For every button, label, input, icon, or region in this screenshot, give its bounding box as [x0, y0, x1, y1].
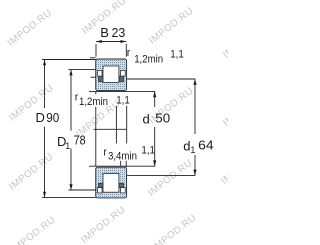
svg-text:1,2min: 1,2min	[134, 54, 163, 66]
svg-text:IMPOD.RU: IMPOD.RU	[221, 87, 228, 128]
svg-text:IMPOD.RU: IMPOD.RU	[7, 151, 56, 192]
svg-text:1,1: 1,1	[116, 95, 130, 107]
svg-text:IMPOD.RU: IMPOD.RU	[221, 19, 228, 60]
svg-text:IMPOD.RU: IMPOD.RU	[147, 5, 196, 46]
svg-text:IMPOD.RU: IMPOD.RU	[150, 212, 199, 245]
svg-text:50: 50	[155, 111, 170, 126]
svg-text:78: 78	[74, 132, 86, 147]
svg-text:1,1: 1,1	[141, 145, 155, 157]
svg-text:3,4min: 3,4min	[108, 151, 137, 163]
svg-text:90: 90	[46, 110, 59, 125]
svg-text:IMPOD.RU: IMPOD.RU	[9, 214, 58, 245]
svg-text:B: B	[100, 25, 109, 40]
svg-text:D: D	[36, 110, 45, 125]
svg-text:r: r	[127, 47, 131, 59]
svg-text:IMPOD.RU: IMPOD.RU	[219, 145, 228, 186]
svg-text:23: 23	[112, 25, 126, 40]
svg-text:IMPOD.RU: IMPOD.RU	[146, 157, 195, 198]
svg-text:1: 1	[190, 145, 195, 155]
svg-text:IMPOD.RU: IMPOD.RU	[79, 204, 128, 245]
svg-text:1: 1	[65, 141, 70, 151]
svg-text:d: d	[143, 111, 150, 126]
svg-text:1,1: 1,1	[170, 48, 184, 60]
svg-text:1,2min: 1,2min	[79, 96, 108, 108]
svg-text:r: r	[103, 146, 107, 158]
svg-text:64: 64	[198, 137, 213, 152]
svg-text:IMPOD.RU: IMPOD.RU	[6, 7, 55, 48]
